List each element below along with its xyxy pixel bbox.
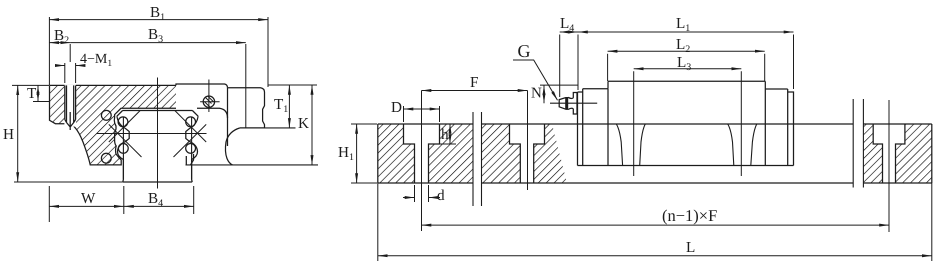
counterbore hole 2 white [510,123,545,184]
rail top line [378,123,932,125]
nipple centerline [550,102,597,104]
dimension T [33,85,50,101]
svg-text:L: L [686,239,695,256]
grease nipple bold bar [565,97,568,109]
contact X lines right [174,111,207,158]
end cap upper ledge [228,88,265,92]
hole 1 centerline [421,91,423,201]
grease nipple [559,93,577,115]
dimension (n-1)xF [422,190,890,232]
dimension B2 and B3 [49,43,245,128]
load ball upper-right [186,117,196,127]
svg-text:T1: T1 [274,96,288,115]
ball track window left [616,124,645,166]
hole 5 centerline [888,100,890,231]
right concave curve to bottom lip [225,128,239,165]
svg-text:D: D [391,99,402,116]
load ball upper-left [118,117,128,127]
dimension L3 [634,69,742,176]
svg-text:T: T [27,85,37,102]
hole 2 centerline [527,91,529,191]
svg-text:W: W [81,190,96,207]
svg-text:L4: L4 [560,15,574,34]
rail side face lines [123,117,191,179]
end cap right [765,89,787,166]
counterbore hole 5 white [873,123,905,184]
dimension N [540,85,578,103]
end seal right [788,92,794,166]
svg-text:B1: B1 [150,4,165,23]
dimension T1 [288,85,290,128]
cap/body boundary right [764,81,766,165]
carriage bottom edge + K reference line [186,164,319,166]
dimension B4 [124,186,194,214]
break lines right [853,99,863,188]
rail right end face [931,124,933,183]
dimension d [403,185,440,202]
top hole circle (end view) [203,96,214,107]
hole 1 outline [404,124,440,183]
hole 2 outline [510,124,545,183]
carriage section hatched body [50,85,177,164]
svg-text:B3: B3 [148,26,163,45]
hole 5 outline [873,124,905,183]
M1 tapped hole (white cutout) [64,85,76,127]
rail bottom + H reference line [14,181,123,183]
svg-text:h: h [441,126,449,143]
svg-text:K: K [298,115,309,132]
svg-text:L1: L1 [676,15,690,34]
dimension H1 [351,124,377,183]
svg-text:4−M1: 4−M1 [80,52,112,69]
rail side hatched section right [863,124,931,183]
dimension B1 [49,17,268,87]
cap/body boundary left [607,89,609,166]
dimension L1 [578,32,794,89]
carriage bottom [578,165,794,167]
dimension F [422,90,528,92]
end cap left [583,81,608,165]
flange underside right [240,127,265,129]
hole circle centerlines [200,80,220,113]
svg-text:H1: H1 [338,144,354,163]
return ball upper-left [101,110,111,120]
right outer face with jog [263,92,265,128]
end seal inner vertical right [227,88,229,146]
dimension H [12,85,49,182]
rail side hatched section left [378,124,473,183]
carriage section outline [50,85,177,164]
svg-text:L2: L2 [676,36,690,55]
svg-text:N: N [531,86,542,102]
rail outline [117,111,198,183]
return ball lower-left [101,153,111,163]
ball horizontal centerline [97,133,207,135]
end seal left [578,92,583,166]
rail vertical centerline [157,78,159,189]
load ball lower-right [186,144,196,154]
top reference line right (for T1/K) [268,84,317,86]
svg-text:F: F [470,74,478,91]
dimension W [49,186,124,222]
main body top [608,80,765,82]
hole circle hatch ticks [204,96,213,108]
counterbore hole 1 white [404,123,440,184]
rail left end face [377,124,379,183]
dimension L2 [608,51,765,81]
svg-text:L3: L3 [677,54,691,73]
svg-text:d: d [437,187,445,204]
ball track window right [728,124,757,166]
svg-text:B2: B2 [54,27,69,46]
dimension h [440,124,457,144]
svg-text:H: H [3,126,14,143]
dimension L [378,183,932,261]
svg-text:B4: B4 [148,190,163,209]
rail side hatched section mid [482,124,568,183]
label G leader [513,60,558,100]
load ball lower-left [118,144,128,154]
T1 reference line [265,127,296,129]
carriage top step (right half, end view) [176,84,228,88]
carriage right half underside and inner lip [186,108,227,165]
dimension L4 [560,32,578,97]
contact X lines left [109,111,142,158]
dimension 4-M1 [56,63,84,83]
rail bottom line [378,182,932,184]
dimension D [404,106,440,122]
svg-text:G: G [518,41,531,61]
svg-text:(n−1)×F: (n−1)×F [662,206,717,225]
dimension K [311,85,313,165]
break lines left [473,112,482,206]
